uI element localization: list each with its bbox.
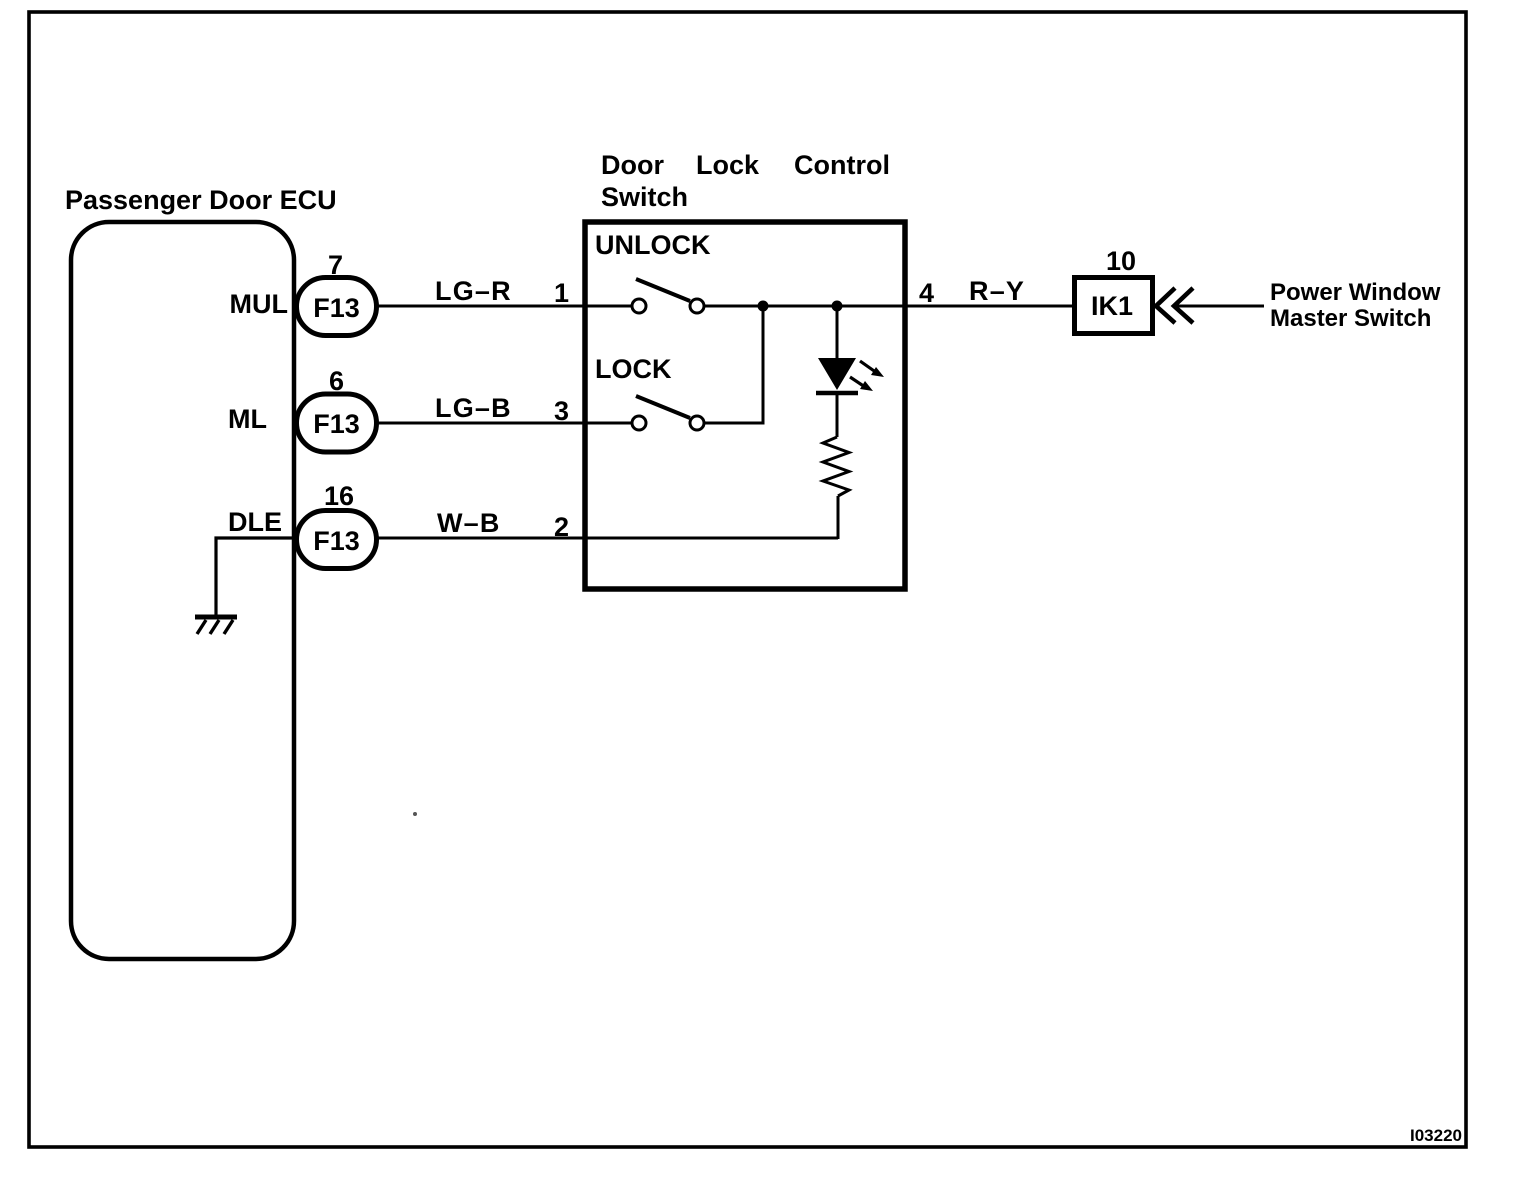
junction node A xyxy=(758,301,769,312)
svg-text:7: 7 xyxy=(328,250,343,280)
svg-text:F13: F13 xyxy=(313,526,360,556)
wire pin1 to node A xyxy=(704,305,1074,308)
wire node B down to LED xyxy=(836,306,839,358)
wire LG-R (MUL to switch pin 1) xyxy=(377,305,633,308)
connector arrow chevrons xyxy=(1156,288,1193,323)
wire W-B (DLE to switch pin 2) xyxy=(377,537,839,540)
svg-text:3: 3 xyxy=(554,396,569,426)
svg-text:2: 2 xyxy=(554,512,569,542)
svg-text:F13: F13 xyxy=(313,409,360,439)
svg-text:UNLOCK: UNLOCK xyxy=(595,230,711,260)
connector F13 (DLE pin 16) xyxy=(297,511,377,569)
junction node B xyxy=(832,301,843,312)
Door Lock Control Switch box xyxy=(585,222,905,589)
wire LG-B (ML to switch pin 3) xyxy=(377,422,633,425)
svg-text:4: 4 xyxy=(919,278,934,308)
svg-text:F13: F13 xyxy=(313,293,360,323)
connector IK1 pin 10 xyxy=(1075,278,1153,334)
svg-text:10: 10 xyxy=(1106,246,1136,276)
svg-text:MUL: MUL xyxy=(230,289,288,319)
switch LOCK contact xyxy=(632,396,704,430)
ground xyxy=(195,617,237,634)
resistor R1 xyxy=(823,437,849,496)
svg-text:16: 16 xyxy=(324,481,354,511)
wire to Power Window Master Switch xyxy=(1176,305,1264,308)
svg-text:6: 6 xyxy=(329,366,344,396)
wire R-Y (pin 4 to IK1) xyxy=(905,305,1074,308)
svg-text:Switch: Switch xyxy=(601,182,688,212)
wire LED to resistor xyxy=(836,393,839,437)
connector F13 (MUL pin 7) xyxy=(297,278,377,336)
wire resistor to pin 2 xyxy=(837,496,840,539)
switch UNLOCK contact xyxy=(632,279,704,313)
svg-text:LOCK: LOCK xyxy=(595,354,672,384)
LED D1 xyxy=(816,358,884,393)
Passenger Door ECU block xyxy=(71,222,294,959)
svg-text:Passenger Door ECU: Passenger Door ECU xyxy=(65,185,337,215)
svg-text:1: 1 xyxy=(554,278,569,308)
svg-text:LG–R: LG–R xyxy=(435,276,512,306)
svg-text:I03220: I03220 xyxy=(1410,1126,1462,1145)
connector F13 (ML pin 6) xyxy=(297,394,377,452)
svg-text:Power Window: Power Window xyxy=(1270,279,1441,306)
svg-text:Master Switch: Master Switch xyxy=(1270,305,1431,332)
svg-text:IK1: IK1 xyxy=(1091,291,1133,321)
svg-text:DoorLockControl: DoorLockControl xyxy=(601,150,890,180)
svg-text:W–B: W–B xyxy=(437,508,501,538)
svg-text:LG–B: LG–B xyxy=(435,393,512,423)
wire DLE internal to ground xyxy=(216,538,297,617)
svg-text:R–Y: R–Y xyxy=(969,276,1025,306)
svg-text:DLE: DLE xyxy=(228,507,282,537)
svg-text:ML: ML xyxy=(228,404,267,434)
wire LOCK output up to node A xyxy=(704,306,763,423)
